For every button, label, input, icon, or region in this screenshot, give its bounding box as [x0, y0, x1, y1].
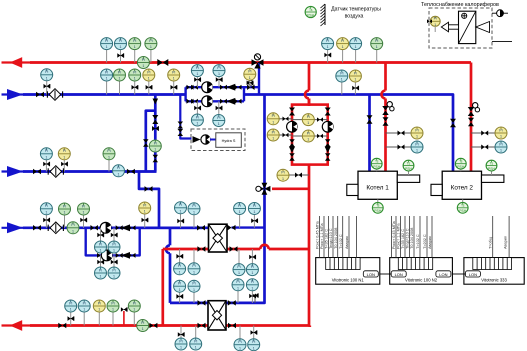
svg-text:Pi: Pi	[272, 114, 275, 118]
svg-text:Pi: Pi	[105, 39, 108, 43]
red supply arrow	[10, 57, 23, 68]
sensor S32	[83, 312, 85, 325]
svg-text:Hydra S: Hydra S	[222, 139, 236, 143]
svg-text:1: 1	[108, 155, 110, 159]
wire hydra feed	[180, 95, 191, 139]
mixing valve M1 on red main	[252, 54, 264, 69]
svg-text:1: 1	[106, 45, 108, 49]
svg-text:1: 1	[106, 77, 108, 81]
svg-text:PSH: PSH	[307, 13, 315, 17]
svg-text:Pi: Pi	[178, 282, 181, 286]
svg-text:Pi: Pi	[192, 204, 195, 208]
gauge P boiler2	[495, 141, 507, 153]
sensor S27	[180, 214, 182, 228]
svg-text:Pi: Pi	[118, 70, 121, 74]
sensor S29	[239, 215, 241, 228]
check valve line2	[226, 98, 235, 105]
svg-text:Ts: Ts	[375, 160, 379, 164]
valve after HX2 red	[228, 323, 236, 329]
svg-text:Ts: Ts	[376, 204, 380, 208]
svg-text:Ts: Ts	[309, 8, 313, 12]
svg-text:LON: LON	[395, 272, 403, 277]
svg-text:Pi: Pi	[172, 70, 175, 74]
svg-text:Pi: Pi	[192, 282, 195, 286]
svg-text:Pi: Pi	[112, 268, 115, 272]
wire riser A (x155)	[154, 95, 157, 172]
svg-text:1: 1	[120, 45, 122, 49]
svg-text:1: 1	[154, 148, 156, 152]
motor valve line1 ext	[247, 80, 255, 90]
sensor SU14	[253, 326, 255, 339]
svg-text:Рсист 0,45 МПа: Рсист 0,45 МПа	[392, 220, 396, 249]
svg-text:1: 1	[341, 78, 343, 82]
motor valve boiler1	[382, 102, 394, 115]
svg-text:1: 1	[179, 270, 181, 274]
svg-text:1: 1	[112, 308, 114, 312]
svg-text:Vitotronic 100 N1: Vitotronic 100 N1	[332, 278, 365, 283]
valve main2 inlet	[33, 169, 41, 175]
gauge on red riser tap	[277, 169, 289, 181]
svg-text:PSH: PSH	[405, 167, 413, 171]
svg-text:Pi: Pi	[499, 128, 502, 132]
jump blue drop over red	[166, 245, 170, 253]
heat exchanger HX2	[208, 301, 226, 330]
svg-text:1: 1	[218, 122, 220, 126]
red riser boiler1	[384, 63, 387, 91]
sensor S8	[376, 50, 378, 63]
sensor SD4	[251, 291, 253, 303]
sensor boiler1 flue	[408, 171, 410, 175]
svg-text:1: 1	[376, 45, 378, 49]
safety valve stub	[123, 311, 125, 326]
svg-text:1: 1	[196, 72, 198, 76]
svg-text:Pi: Pi	[133, 301, 136, 305]
svg-text:PSH: PSH	[488, 167, 496, 171]
svg-text:1: 1	[193, 210, 195, 214]
valve main3 inlet	[33, 225, 41, 231]
pump HX line2	[101, 250, 112, 261]
svg-text:1: 1	[113, 275, 115, 279]
svg-text:1: 1	[434, 23, 436, 27]
svg-text:1: 1	[100, 249, 102, 253]
svg-text:Т0 104 2008: Т0 104 2008	[334, 228, 338, 249]
calorifier supply arrow	[441, 22, 458, 32]
svg-text:1: 1	[98, 308, 100, 312]
tap upper left gauge	[279, 118, 292, 120]
sensor SD1	[179, 292, 181, 303]
svg-text:1: 1	[272, 120, 274, 124]
wire hydra pump to unit	[210, 139, 216, 141]
sensor boiler1 bottom	[377, 199, 379, 202]
valves pump line2 left	[187, 99, 194, 104]
red bottom arrow	[10, 320, 23, 331]
sensor SD3	[237, 291, 239, 303]
wire drop from mix valve	[258, 63, 260, 95]
svg-text:1: 1	[355, 45, 357, 49]
svg-text:Pi: Pi	[107, 149, 110, 153]
svg-text:Т<35 182 С: Т<35 182 С	[325, 229, 329, 249]
svg-text:LON: LON	[367, 272, 375, 277]
jump red riser over blue main1	[305, 91, 309, 99]
dashed calorifier box	[429, 8, 492, 48]
svg-text:1: 1	[83, 211, 85, 215]
sensor S21	[63, 160, 65, 172]
svg-text:1: 1	[173, 77, 175, 81]
svg-text:1: 1	[253, 346, 255, 350]
sensor S28	[193, 215, 195, 228]
valve before junction	[149, 323, 157, 329]
calorifier heat exchanger	[459, 11, 476, 43]
svg-text:1: 1	[307, 138, 309, 142]
valve before HX2 red	[198, 323, 206, 329]
sensor on bottom main	[137, 320, 149, 332]
svg-text:1: 1	[251, 286, 253, 290]
valve after HX1 red	[230, 246, 238, 252]
gauge PI lower-mid	[302, 130, 314, 142]
valve on riser B	[143, 139, 149, 147]
HX1 blue tail to drop	[232, 226, 265, 228]
svg-text:1: 1	[354, 78, 356, 82]
svg-text:Pi: Pi	[415, 128, 418, 132]
valve after HX2 blue	[228, 300, 236, 306]
svg-text:Pi: Pi	[354, 71, 357, 75]
svg-text:Pi: Pi	[375, 39, 378, 43]
svg-text:1: 1	[63, 155, 65, 159]
sensor SU9	[238, 249, 240, 263]
sensor on red main	[137, 57, 149, 69]
svg-text:Pi: Pi	[196, 115, 199, 119]
svg-text:Pi: Pi	[238, 340, 241, 344]
valve red riser1	[383, 117, 389, 126]
svg-text:1: 1	[45, 210, 47, 214]
wire riser B (x146)	[146, 111, 156, 172]
valves pump line1 left	[187, 85, 194, 90]
blue return arrow 2	[7, 166, 23, 177]
filter main3	[48, 222, 63, 234]
sensor S23	[45, 215, 47, 228]
svg-text:Pi: Pi	[499, 142, 502, 146]
wire red riser to rect	[308, 99, 311, 107]
svg-text:1: 1	[249, 76, 251, 80]
svg-text:Pi: Pi	[105, 70, 108, 74]
valve blue riser1	[367, 115, 373, 124]
heat exchanger HX1	[209, 224, 228, 252]
valve before HX2 blue	[198, 300, 206, 306]
pump P1	[202, 82, 213, 93]
sensor S22	[108, 160, 110, 172]
svg-text:воздуха: воздуха	[345, 14, 364, 20]
svg-text:Рсист 1,1 МПа: Рсист 1,1 МПа	[397, 223, 401, 249]
air temp sensor	[305, 6, 316, 17]
gauge PI lower-left	[267, 129, 279, 141]
valve right branch low	[325, 153, 331, 161]
svg-text:1: 1	[150, 45, 152, 49]
svg-text:1: 1	[144, 210, 146, 214]
sensor SU10	[251, 249, 253, 263]
red HX1 line	[163, 248, 260, 251]
gauge T boiler2	[495, 127, 507, 139]
sensor boiler2 flue	[491, 171, 493, 175]
svg-text:1: 1	[100, 275, 102, 279]
blue return main 2	[2, 170, 157, 172]
svg-text:Датчик температуры: Датчик температуры	[331, 7, 381, 13]
svg-text:Pi: Pi	[281, 171, 284, 175]
controller Vitotronic 100 N2	[390, 216, 453, 284]
sensor S12	[134, 81, 136, 94]
valve pump line2 right2	[235, 99, 242, 104]
svg-text:Pi: Pi	[253, 204, 256, 208]
svg-text:1: 1	[142, 64, 144, 68]
wire red riser x309 lower	[308, 165, 311, 326]
svg-text:Pi: Pi	[111, 301, 114, 305]
valve after pump1	[116, 225, 123, 230]
red corner up x310	[308, 326, 311, 328]
svg-text:1: 1	[134, 45, 136, 49]
svg-text:Pi: Pi	[149, 39, 152, 43]
wall hatch	[321, 4, 326, 26]
sensor S9	[46, 81, 48, 95]
check right branch	[325, 147, 331, 154]
red supply main (top)	[2, 61, 472, 63]
svg-text:Тпод=110 С: Тпод=110 С	[329, 228, 333, 249]
valve blue riser2	[450, 119, 456, 128]
valve left branch mid	[289, 139, 295, 147]
svg-text:Тпод=110 С: Тпод=110 С	[406, 228, 410, 249]
wire bottom main to red corner	[203, 324, 310, 327]
svg-text:1: 1	[237, 286, 239, 290]
valve red main	[157, 59, 168, 66]
sensor SU2	[218, 101, 220, 114]
valve left branch low	[289, 153, 295, 161]
svg-text:Теплоснабжение калориферов: Теплоснабжение калориферов	[421, 2, 499, 8]
valve right branch mid	[325, 139, 331, 147]
svg-text:Ts: Ts	[490, 161, 494, 165]
sensor SU7	[179, 249, 181, 263]
blue riser boiler2	[452, 95, 453, 172]
svg-text:Pi: Pi	[236, 280, 239, 284]
svg-text:1: 1	[83, 308, 85, 312]
svg-text:Pi: Pi	[69, 301, 72, 305]
svg-text:Pi: Pi	[251, 265, 254, 269]
wire main2 drop	[139, 172, 159, 228]
tall comb lines Vitotronic 333	[492, 216, 494, 258]
valve pump line2 right	[220, 99, 227, 104]
svg-text:Pi: Pi	[415, 142, 418, 146]
svg-text:1: 1	[180, 346, 182, 350]
svg-text:1: 1	[64, 211, 66, 215]
signal labels controller3	[488, 236, 507, 249]
svg-text:1: 1	[500, 149, 502, 153]
svg-text:PSH: PSH	[457, 165, 465, 169]
svg-text:1: 1	[272, 137, 274, 141]
svg-text:1: 1	[239, 346, 241, 350]
svg-text:1: 1	[193, 288, 195, 292]
svg-text:Авария: Авария	[345, 236, 349, 249]
sensor boiler2 bottom	[462, 199, 464, 202]
fan symbol	[492, 10, 508, 17]
valve after HX1 blue	[228, 225, 236, 231]
svg-text:Pi: Pi	[141, 321, 144, 325]
svg-text:1: 1	[45, 155, 47, 159]
svg-text:Pi: Pi	[434, 17, 437, 21]
sensor S3	[134, 50, 136, 63]
valve right branch top	[325, 108, 331, 116]
svg-text:Авария: Авария	[504, 236, 508, 249]
boiler Котел 2	[431, 171, 504, 199]
svg-text:Т=общ: Т=общ	[488, 236, 492, 249]
gauge T boiler1	[411, 127, 423, 139]
calorifier drain line	[492, 41, 512, 43]
dashed box hydra	[191, 129, 245, 151]
svg-text:1: 1	[416, 135, 418, 139]
svg-text:Pi: Pi	[142, 58, 145, 62]
valve red riser2	[468, 118, 474, 127]
svg-text:1: 1	[134, 77, 136, 81]
svg-text:Pi: Pi	[272, 130, 275, 134]
tap P boiler2	[471, 146, 495, 148]
svg-text:Pi: Pi	[237, 265, 240, 269]
svg-text:Pi: Pi	[238, 204, 241, 208]
svg-text:Pi: Pi	[217, 116, 220, 120]
flow arrow on riser A	[153, 99, 159, 105]
sensor on main3	[67, 222, 79, 234]
gauge PI upper-mid	[302, 114, 314, 126]
svg-text:1: 1	[416, 149, 418, 153]
svg-text:Pi: Pi	[307, 131, 310, 135]
svg-text:Т0 104 2008: Т0 104 2008	[410, 228, 414, 249]
jump red over blue drop x264	[260, 245, 268, 249]
svg-text:PSH: PSH	[373, 165, 381, 169]
pump right branch	[322, 121, 333, 132]
wire pump header right	[243, 87, 245, 101]
sensor SU6	[113, 255, 115, 266]
sensor S25	[83, 215, 85, 228]
blue return arrow 3	[7, 222, 23, 233]
sensor SU4	[113, 228, 115, 241]
gauge P boiler1	[411, 141, 423, 153]
valve pump line1 right	[220, 85, 227, 90]
blue return main 1 (left of pump block)	[2, 93, 186, 95]
sensor S30	[253, 215, 255, 228]
motor valve boiler2	[468, 103, 480, 116]
blue return main 3	[2, 227, 203, 229]
svg-text:Pi: Pi	[252, 340, 255, 344]
sensor TI riser A	[149, 140, 161, 152]
signal labels controller1	[316, 220, 350, 249]
svg-text:Ts: Ts	[461, 204, 465, 208]
wire pump header left	[184, 87, 186, 101]
svg-text:Pi: Pi	[133, 70, 136, 74]
red bottom main	[2, 324, 204, 326]
red left riser x163	[161, 249, 164, 326]
svg-text:1: 1	[142, 327, 144, 331]
svg-text:1: 1	[195, 346, 197, 350]
svg-text:1: 1	[282, 177, 284, 181]
sensor S1	[106, 50, 108, 63]
svg-text:Рсист 1,1 МПа: Рсист 1,1 МПа	[320, 223, 324, 249]
valve main3 before pump	[90, 225, 98, 231]
svg-text:1: 1	[196, 122, 198, 126]
valve bypass before pump	[97, 253, 104, 258]
svg-text:Т<35 182 С: Т<35 182 С	[401, 229, 405, 249]
svg-text:Ts: Ts	[407, 161, 411, 165]
sensor S10	[106, 81, 108, 94]
svg-text:1: 1	[500, 135, 502, 139]
svg-text:1: 1	[113, 249, 115, 253]
valve on riser A	[152, 115, 158, 124]
svg-text:Pi: Pi	[98, 301, 101, 305]
controller Vitotronic 333	[464, 258, 524, 285]
controller Vitotronic 100 N1	[316, 216, 380, 284]
sensor boiler2 top	[460, 169, 462, 171]
svg-text:Авария: Авария	[428, 236, 432, 249]
LON link 2-3	[452, 273, 465, 275]
sensor S31	[70, 312, 72, 325]
calorifier air cone	[476, 22, 490, 33]
sensor SU13	[239, 326, 241, 339]
sensor S17	[196, 77, 198, 87]
svg-text:Pi: Pi	[45, 70, 48, 74]
sensor S35	[133, 312, 135, 325]
svg-text:Pi: Pi	[179, 339, 182, 343]
sensor S6	[342, 50, 344, 63]
hydra unit box	[216, 133, 242, 148]
sensor SU1	[196, 101, 198, 114]
svg-text:Котел 2: Котел 2	[451, 185, 474, 192]
svg-text:Pi: Pi	[71, 223, 74, 227]
svg-text:1: 1	[118, 172, 120, 176]
check valve hydra	[193, 136, 201, 143]
blue return arrow 1	[7, 89, 23, 100]
sensor SU5	[100, 255, 102, 266]
sensor S13	[148, 81, 150, 94]
filter main1	[47, 89, 62, 101]
red pump rect	[292, 105, 328, 165]
wire pump line 1	[186, 86, 259, 88]
svg-text:Рсист 0,45 МПа: Рсист 0,45 МПа	[316, 220, 320, 249]
red mixing stub	[272, 187, 309, 190]
svg-text:Pi: Pi	[354, 39, 357, 43]
pump P2	[202, 96, 213, 107]
tap T boiler1	[386, 132, 412, 134]
tap lower middle gauge	[292, 135, 328, 137]
svg-text:1: 1	[327, 45, 329, 49]
svg-text:Т>102 С: Т>102 С	[416, 234, 420, 249]
sensor S19	[249, 80, 251, 87]
sensor S24	[64, 215, 66, 228]
valve before HX1 red	[197, 246, 205, 252]
valve+tee on riser A lower	[152, 126, 159, 131]
valve bottom main left	[58, 323, 66, 329]
svg-text:Pi: Pi	[133, 39, 136, 43]
svg-text:PSH: PSH	[374, 209, 382, 213]
svg-text:Pi: Pi	[147, 70, 150, 74]
blue drop x170	[169, 228, 172, 246]
check valve line1	[226, 84, 235, 91]
blue drop x264 (to HX2)	[170, 95, 265, 303]
valve before HX1 blue	[197, 225, 205, 231]
svg-text:Pi: Pi	[112, 242, 115, 246]
sensor SU12	[195, 326, 197, 338]
wire main3 to HX1	[140, 226, 209, 229]
svg-text:Т>202 С: Т>202 С	[423, 234, 427, 249]
check after pump2	[121, 252, 130, 259]
sensor S4	[150, 50, 152, 63]
tap on red riser y175	[288, 174, 309, 176]
jump red riser1 over main1	[382, 91, 386, 99]
svg-text:Pi: Pi	[83, 301, 86, 305]
pump left branch	[287, 121, 298, 132]
